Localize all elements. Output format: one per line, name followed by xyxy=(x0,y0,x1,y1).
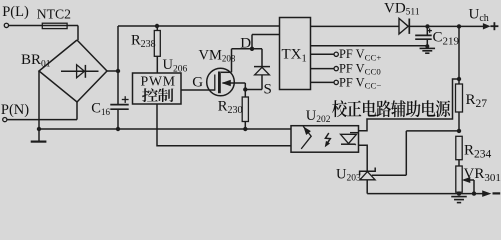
svg-text:NTC2: NTC2 xyxy=(37,6,71,21)
svg-text:D: D xyxy=(240,35,251,51)
svg-text:G: G xyxy=(192,74,203,90)
svg-text:P(L): P(L) xyxy=(2,4,29,20)
svg-text:S: S xyxy=(264,82,272,98)
svg-text:P(N): P(N) xyxy=(1,102,29,118)
svg-text:PWM: PWM xyxy=(141,74,176,89)
